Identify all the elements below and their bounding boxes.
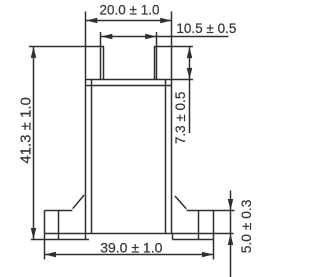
arrow 10.5 right (145, 34, 156, 40)
wire window second line (86, 85, 172, 87)
wire dimension line 7.3 (189, 47, 191, 134)
wire base top left (45, 210, 73, 212)
wire right outer wall / 20.0 extension (171, 12, 173, 234)
arrow 39.0 right (202, 252, 213, 258)
arrow 41.3 bottom (31, 228, 37, 239)
arrow 39.0 left (45, 252, 56, 258)
wire right gusset diagonal (175, 196, 186, 209)
svg-text:5.0 ± 0.3: 5.0 ± 0.3 (239, 199, 254, 253)
wire dimension line 41.3 (33, 47, 35, 240)
wire right foot bottom (172, 234, 174, 240)
arrow 20.0 right (160, 18, 171, 24)
wire left pin (58, 211, 60, 240)
wire flange top right segment / 7.3 top extension (154, 46, 193, 48)
wire left foot bottom / 41.3 bottom extension (31, 239, 89, 241)
arrow 7.3 bottom (187, 68, 193, 79)
wire dimension line 10.5 with shelf (101, 36, 229, 38)
arrow 5.0 top (outside, pointing down) (228, 199, 234, 210)
wire dimension line 5.0 (230, 191, 232, 277)
wire left outer wall / 20.0 extension (85, 12, 87, 240)
wire dimension line 39.0 (45, 254, 214, 256)
arrow 41.3 top (31, 47, 37, 58)
arrow 10.5 left (101, 34, 112, 40)
arrow 5.0 bottom (outside, pointing up) (228, 234, 234, 245)
wire left inner wall (91, 80, 93, 234)
wire tube left outer wall / 10.5 extension (100, 32, 102, 80)
wire left gusset diagonal (73, 195, 84, 209)
wire base right edge / 39.0 extension (213, 211, 215, 260)
wire dimension line 20.0 (86, 20, 172, 22)
wire right inner wall (165, 80, 167, 234)
wire flange top left segment / 41.3 top extension (29, 46, 104, 48)
svg-text:10.5 ± 0.5: 10.5 ± 0.5 (176, 21, 236, 36)
wire right pin (198, 211, 200, 240)
wire base left edge / 39.0 extension (44, 211, 46, 260)
svg-text:39.0 ± 1.0: 39.0 ± 1.0 (100, 239, 162, 255)
wire tube right inner wall (154, 47, 156, 80)
arrow 20.0 left (86, 18, 97, 24)
svg-text:41.3 ± 1.0: 41.3 ± 1.0 (17, 97, 34, 164)
arrow 7.3 top (187, 47, 193, 58)
wire base bottom / 5.0 bottom extension (45, 233, 234, 235)
wire window top line / 7.3 bottom extension (86, 79, 194, 81)
wire base top right / 5.0 top extension (187, 210, 235, 212)
wire tube right outer wall / 10.5 extension (156, 32, 158, 80)
wire tube left inner wall (103, 47, 105, 80)
svg-text:7.3 ± 0.5: 7.3 ± 0.5 (173, 92, 188, 144)
svg-text:20.0 ± 1.0: 20.0 ± 1.0 (100, 2, 160, 17)
